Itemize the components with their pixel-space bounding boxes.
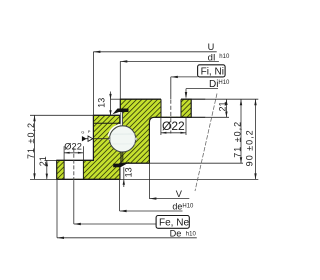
arrow Fe — [74, 223, 81, 225]
arrows 90 right — [254, 99, 256, 105]
Ø22 right ext lines — [160, 117, 162, 135]
svg-text:Ø22: Ø22 — [64, 142, 82, 152]
V leader — [148, 163, 150, 198]
G P leader — [86, 138, 110, 140]
arrow Fi,Ni — [171, 76, 178, 78]
arrows 13 top — [109, 94, 111, 99]
13 top — [111, 98, 121, 100]
seal top wedge — [113, 109, 129, 115]
90 right — [255, 99, 257, 179]
svg-text:Fe, Ne: Fe, Ne — [159, 217, 189, 228]
svg-text:de: de — [172, 202, 182, 212]
arrow de — [120, 210, 127, 212]
ball — [110, 126, 136, 152]
de leader — [119, 179, 121, 211]
Fi,Ni leader — [171, 76, 198, 78]
Fe leader — [73, 180, 75, 224]
21 right — [225, 99, 227, 117]
ring upper-right (inner ring Di/Fi/dI) body+flange — [120, 99, 191, 163]
top face — [120, 98, 161, 100]
svg-text:90 ±0,2: 90 ±0,2 — [245, 129, 255, 166]
svg-text:H10: H10 — [182, 203, 194, 209]
svg-text:21: 21 — [38, 156, 48, 166]
svg-text:P: P — [88, 129, 91, 134]
arrow De — [57, 237, 64, 239]
svg-text:H10: H10 — [218, 80, 230, 86]
raceway sliver upper-left — [108, 125, 120, 137]
label box Fi, Ni — [198, 65, 226, 77]
arrows 71 right — [240, 99, 242, 105]
gap line below ball — [122, 152, 124, 162]
raceway notches — [108, 137, 111, 140]
bolt hole right flange — [155, 98, 206, 117]
svg-text:h10: h10 — [219, 54, 230, 60]
lip-top extension left — [30, 114, 93, 116]
arrow 13 bottom — [123, 179, 125, 184]
gap channel above ball — [121, 112, 122, 126]
dI leader — [120, 60, 219, 62]
arrows 71 left — [33, 115, 35, 121]
arrow dI — [120, 60, 127, 62]
Di leader — [186, 88, 218, 90]
13 bottom — [123, 167, 125, 187]
svg-text:Fi, Ni: Fi, Ni — [201, 66, 224, 77]
71 left — [34, 115, 36, 179]
svg-text:13: 13 — [123, 167, 133, 177]
seal bottom wedge — [113, 162, 130, 167]
grease points G P — [81, 129, 92, 141]
De leader — [56, 179, 58, 237]
svg-text:13: 13 — [96, 98, 106, 108]
svg-text:Ø22: Ø22 — [162, 119, 185, 133]
svg-text:71 ±0,2: 71 ±0,2 — [233, 121, 243, 158]
arrows 21 right — [225, 99, 227, 105]
arrowheads — [33, 51, 256, 239]
diagonal dashed — [195, 94, 217, 192]
label box Fe, Ne — [156, 216, 189, 229]
svg-text:De: De — [170, 229, 182, 239]
lip top line — [93, 114, 120, 116]
lip right edge — [119, 115, 121, 123]
U leader — [93, 51, 216, 53]
svg-text:G: G — [81, 129, 84, 134]
Ø22 left dim — [63, 146, 65, 160]
arrow U — [93, 51, 100, 53]
svg-text:h10: h10 — [186, 231, 197, 237]
arrow Di — [185, 92, 187, 99]
arrows 21 left — [46, 160, 48, 166]
arrow V — [149, 197, 156, 199]
svg-text:21: 21 — [217, 101, 227, 111]
svg-text:dI: dI — [208, 53, 216, 64]
arrows Ø22 right — [161, 132, 167, 134]
arrows Ø22 left — [64, 152, 70, 154]
right extensions — [205, 98, 258, 100]
svg-text:V: V — [176, 189, 183, 199]
bolt hole left flange — [57, 160, 120, 179]
right ring bottom face — [121, 162, 149, 164]
ring lower-left (outer ring De/Fe/de) body+flange — [57, 115, 123, 179]
21 left — [45, 159, 57, 161]
svg-text:Di: Di — [209, 79, 218, 90]
71 right — [240, 99, 242, 163]
joint line under lip — [93, 122, 120, 124]
svg-text:71 ±0,2: 71 ±0,2 — [26, 122, 36, 159]
svg-text:U: U — [208, 42, 215, 52]
